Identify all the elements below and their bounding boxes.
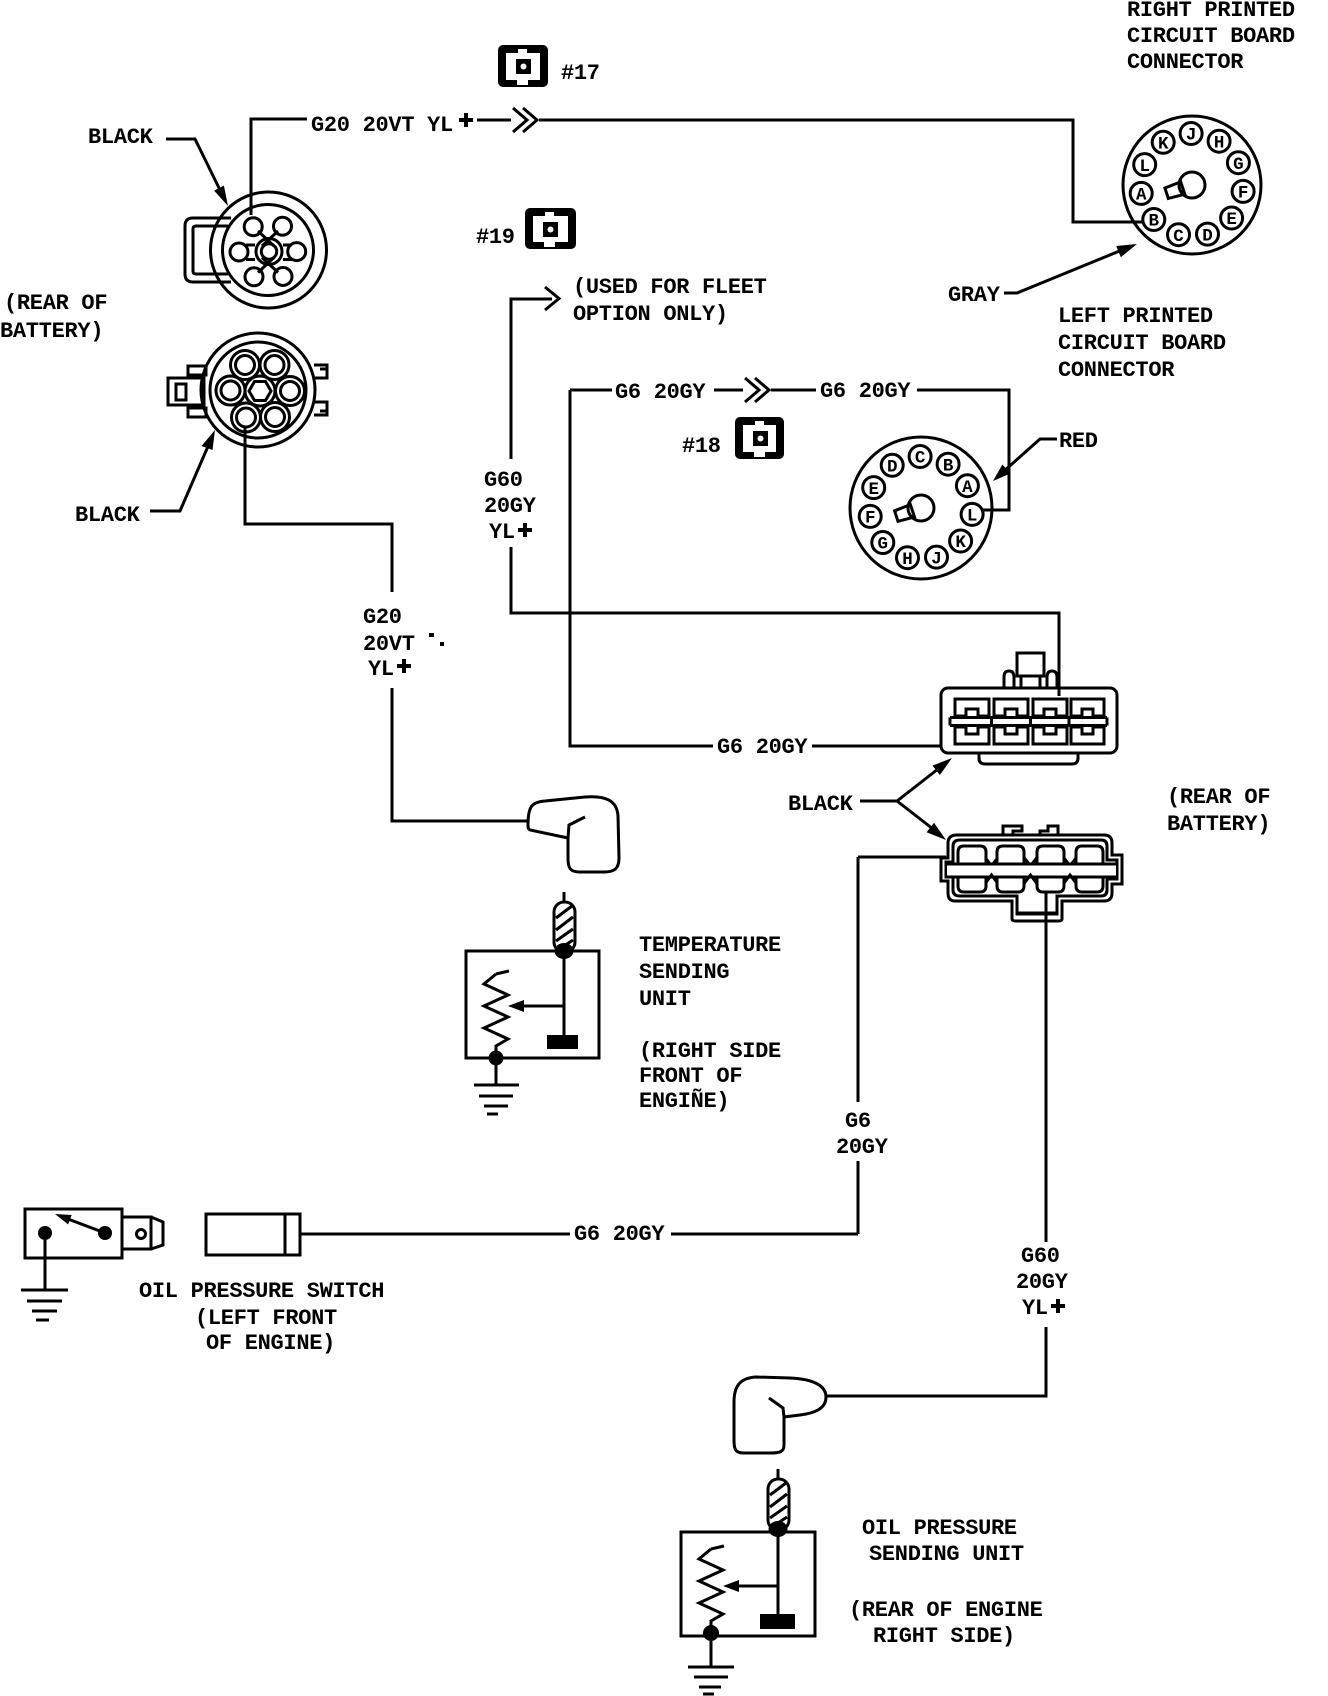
svg-text:BLACK: BLACK <box>788 792 854 817</box>
svg-text:A: A <box>962 478 973 498</box>
svg-text:A: A <box>1136 186 1147 206</box>
svg-text:#19: #19 <box>476 225 515 250</box>
boot terminal (oil pressure sending unit wire) <box>734 1377 826 1453</box>
label RIGHT PRINTED CIRCUIT BOARD CONNECTOR <box>1127 0 1295 75</box>
svg-text:G6 20GY: G6 20GY <box>615 380 706 405</box>
svg-text:FRONT OF: FRONT OF <box>639 1064 742 1089</box>
svg-text:BLACK: BLACK <box>75 503 141 528</box>
chevron splice marker on G20 wire <box>513 108 537 132</box>
svg-text:RIGHT PRINTED: RIGHT PRINTED <box>1127 0 1295 23</box>
svg-text:G6 20GY: G6 20GY <box>820 379 911 404</box>
svg-text:YL: YL <box>489 520 515 545</box>
svg-text:(REAR OF ENGINE: (REAR OF ENGINE <box>849 1598 1043 1623</box>
inline connector on oil pressure switch wire <box>206 1214 300 1255</box>
svg-text:(RIGHT SIDE: (RIGHT SIDE <box>639 1039 781 1064</box>
svg-text:E: E <box>868 480 879 500</box>
svg-text:OPTION ONLY): OPTION ONLY) <box>573 302 728 327</box>
svg-text:20GY: 20GY <box>484 494 537 519</box>
node: resistor to ground junction (oil) <box>703 1625 719 1641</box>
svg-text:G20: G20 <box>363 605 402 630</box>
svg-text:(REAR OF: (REAR OF <box>1167 785 1270 810</box>
label OIL PRESSURE SENDING UNIT <box>862 1516 1024 1567</box>
label #18 <box>682 434 721 459</box>
svg-text:OIL PRESSURE SWITCH: OIL PRESSURE SWITCH <box>139 1279 384 1304</box>
svg-text:H: H <box>1214 133 1225 153</box>
svg-text:TEMPERATURE: TEMPERATURE <box>639 933 781 958</box>
label G20 20VT YL+ (top wire) <box>311 113 473 138</box>
leader arrow BLACK to connector C1 <box>166 139 228 206</box>
svg-text:(LEFT FRONT: (LEFT FRONT <box>195 1306 337 1331</box>
svg-text:H: H <box>902 550 913 570</box>
temperature sending unit resistor <box>484 971 509 1051</box>
svg-text:BLACK: BLACK <box>88 125 154 150</box>
temperature sending unit stud conductor and contact pad <box>547 958 578 1049</box>
svg-text:BATTERY): BATTERY) <box>0 319 103 344</box>
oil pressure sending unit resistor <box>699 1546 724 1626</box>
right PCB connector (11 pin round) <box>1123 116 1261 254</box>
svg-text:L: L <box>1139 157 1150 177</box>
label (REAR OF BATTERY) upper-left <box>0 291 107 344</box>
svg-text:E: E <box>1226 210 1237 230</box>
svg-text:(REAR OF: (REAR OF <box>4 291 107 316</box>
oil pressure sending unit wiper arrow <box>723 1580 778 1592</box>
leader arrow BLACK to connector C2 <box>150 430 215 511</box>
svg-text:RED: RED <box>1059 429 1098 454</box>
svg-text:20GY: 20GY <box>1016 1270 1069 1295</box>
svg-text:#17: #17 <box>561 61 600 86</box>
svg-text:BATTERY): BATTERY) <box>1167 812 1270 837</box>
leader arrows BLACK to both 8-way connectors <box>860 758 952 840</box>
svg-text:CIRCUIT BOARD: CIRCUIT BOARD <box>1058 331 1226 356</box>
wire G6 20GY upper row with splice <box>570 390 1009 510</box>
svg-text:G6: G6 <box>845 1109 871 1134</box>
left PCB connector (11 pin round) <box>850 437 992 579</box>
svg-text:G: G <box>878 535 889 555</box>
svg-text:RIGHT SIDE): RIGHT SIDE) <box>873 1624 1015 1649</box>
connector C2 7-pin round (rear of battery) <box>168 333 327 447</box>
svg-text:D: D <box>1202 226 1213 246</box>
svg-text:LEFT PRINTED: LEFT PRINTED <box>1058 304 1213 329</box>
label (USED FOR FLEET OPTION ONLY) <box>573 275 767 327</box>
svg-text:SENDING: SENDING <box>639 960 729 985</box>
label GRAY <box>948 283 1001 308</box>
svg-text:UNIT: UNIT <box>639 987 691 1012</box>
svg-text:G: G <box>1233 155 1244 175</box>
label G20 20VT YL+ (vertical wire) <box>363 605 444 682</box>
temperature sending unit box <box>466 951 599 1058</box>
svg-text:SENDING UNIT: SENDING UNIT <box>869 1542 1024 1567</box>
svg-text:YL: YL <box>1022 1296 1048 1321</box>
svg-text:J: J <box>931 549 942 569</box>
svg-text:G6 20GY: G6 20GY <box>574 1222 665 1247</box>
wire G6 20GY into bottom 8-way connector (left) <box>858 856 946 859</box>
oil pressure sending unit stud conductor and contact pad <box>760 1536 795 1629</box>
label G6 20GY (to 8-way connector) <box>717 735 808 760</box>
leader arrow RED to left PCB connector <box>993 439 1057 481</box>
svg-text:D: D <box>887 458 898 478</box>
boot terminal (temperature sending unit wire) <box>528 797 619 872</box>
connector C1 6-pin round (rear of battery) <box>185 192 327 308</box>
wire G6 20GY from upper row corner down to top 8-way connector <box>570 390 941 746</box>
label G6 20GY (vertical wire) <box>836 1109 889 1160</box>
svg-text:C: C <box>1173 227 1184 247</box>
svg-text:20GY: 20GY <box>836 1135 889 1160</box>
svg-text:OIL PRESSURE: OIL PRESSURE <box>862 1516 1017 1541</box>
svg-text:B: B <box>943 456 954 476</box>
svg-text:J: J <box>1186 126 1197 146</box>
wire G60 20GY YL+ from bottom 8-way connector down <box>1045 891 1048 1242</box>
svg-text:L: L <box>967 507 978 527</box>
label (RIGHT SIDE FRONT OF ENGINE) <box>639 1039 781 1114</box>
svg-text:GRAY: GRAY <box>948 283 1001 308</box>
wire G20 20VT from C1 to right PCB connector pin B <box>251 119 1143 222</box>
svg-text:YL: YL <box>368 657 394 682</box>
svg-text:G20 20VT YL: G20 20VT YL <box>311 113 453 138</box>
label #19 <box>476 225 515 250</box>
label G6 20GY (left of splice) <box>615 380 706 405</box>
svg-text:B: B <box>1149 212 1160 232</box>
svg-text:OF ENGINE): OF ENGINE) <box>206 1331 335 1356</box>
ground symbol (oil pressure switch) <box>21 1240 68 1320</box>
svg-text:CONNECTOR: CONNECTOR <box>1058 358 1175 383</box>
svg-text:20VT: 20VT <box>363 632 415 657</box>
bottom 8-way connector (rear of battery) <box>941 826 1122 921</box>
label RED <box>1059 429 1098 454</box>
top 8-way connector (rear of battery) <box>941 653 1117 764</box>
svg-text:K: K <box>955 533 966 553</box>
svg-text:(USED FOR FLEET: (USED FOR FLEET <box>573 275 767 300</box>
wire G6 20GY from inline connector to the right <box>300 1233 858 1236</box>
chevron splice marker on G6 wire <box>745 378 769 402</box>
label LEFT PRINTED CIRCUIT BOARD CONNECTOR <box>1058 304 1226 383</box>
svg-text:G60: G60 <box>484 468 523 493</box>
splice symbol #18 <box>735 417 784 459</box>
label BLACK (upper battery connector) <box>88 125 154 150</box>
ground symbol (oil pressure sending unit) <box>688 1641 734 1694</box>
svg-text:ENGIÑE): ENGIÑE) <box>639 1088 729 1114</box>
svg-text:CONNECTOR: CONNECTOR <box>1127 50 1244 75</box>
svg-text:F: F <box>1238 184 1249 204</box>
wire G60 20GY YL+ down to oil pressure boot <box>826 1327 1046 1396</box>
temperature sending unit terminal stud <box>554 892 575 959</box>
splice symbol #19 <box>525 208 576 249</box>
svg-text:K: K <box>1158 135 1169 155</box>
temperature sending unit wiper arrow <box>508 1000 564 1012</box>
label (REAR OF ENGINE RIGHT SIDE) <box>849 1598 1043 1649</box>
oil pressure switch <box>25 1209 163 1258</box>
splice symbol #17 <box>498 45 548 87</box>
svg-text:G60: G60 <box>1021 1244 1060 1269</box>
wire G6 20GY from oil pressure switch up to bottom 8-way connector <box>857 857 860 1234</box>
svg-text:CIRCUIT BOARD: CIRCUIT BOARD <box>1127 24 1295 49</box>
label OIL PRESSURE SWITCH (LEFT FRONT OF ENGINE) <box>139 1279 384 1356</box>
label G6 20GY (right of splice) <box>820 379 911 404</box>
node: resistor to ground junction (temperature) <box>489 1051 504 1066</box>
label BLACK (lower battery connector) <box>75 503 141 528</box>
wire G20 20VT YL+ from C2 down to temperature boot <box>245 427 528 821</box>
svg-text:G6 20GY: G6 20GY <box>717 735 808 760</box>
ground symbol (temperature sending unit) <box>474 1065 519 1114</box>
oil pressure sending unit terminal stud <box>768 1469 789 1537</box>
svg-text:F: F <box>865 509 876 529</box>
label BLACK (8-way connectors) <box>788 792 854 817</box>
label #17 <box>561 61 600 86</box>
label G60 20GY YL+ (bottom wire) <box>1016 1244 1069 1321</box>
label (REAR OF BATTERY) right <box>1167 785 1270 837</box>
label TEMPERATURE SENDING UNIT <box>639 933 781 1012</box>
svg-text:C: C <box>915 449 926 469</box>
leader arrow GRAY to left PCB connector <box>1004 244 1137 293</box>
oil pressure sending unit box <box>681 1532 815 1636</box>
wire G60 20GY YL+ down to top 8-way connector <box>511 547 1059 696</box>
label G60 20GY YL+ (fleet wire) <box>484 468 537 545</box>
label G6 20GY (oil pressure switch wire) <box>574 1222 665 1247</box>
svg-text:#18: #18 <box>682 434 721 459</box>
leader arrow to fleet note from G60 wire <box>511 287 559 459</box>
